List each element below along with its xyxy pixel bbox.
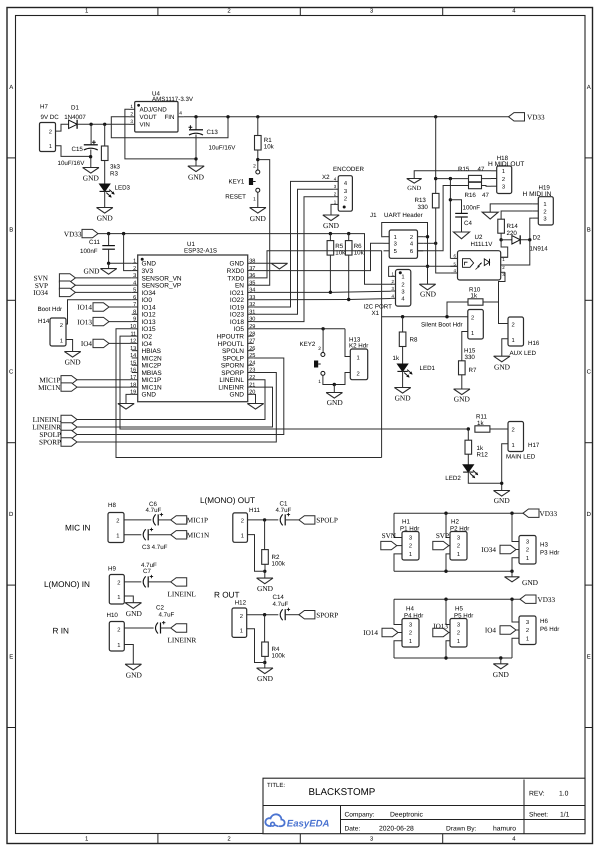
- svg-text:H7: H7: [40, 103, 48, 110]
- ground below J1: [419, 284, 435, 290]
- wire H10 pin2 to C2: [124, 627, 153, 629]
- svg-text:26: 26: [249, 346, 255, 352]
- svg-text:R12: R12: [477, 451, 489, 458]
- capacitor C7: [143, 576, 146, 587]
- pushbutton KEY1 RESET: [256, 170, 260, 174]
- wire H18 pin1 to GND: [414, 171, 491, 179]
- ground below C15: [83, 168, 99, 174]
- svg-text:3: 3: [526, 619, 529, 626]
- wire H6 pin3 to rail: [512, 599, 519, 622]
- svg-text:KEY2: KEY2: [300, 341, 316, 348]
- svg-text:Company:: Company:: [345, 812, 375, 819]
- svg-text:EasyEDA: EasyEDA: [287, 819, 330, 830]
- diode D1: [69, 120, 78, 128]
- svg-text:1: 1: [241, 534, 244, 540]
- wire C15 to GND: [90, 150, 92, 168]
- svg-text:H8: H8: [108, 502, 116, 509]
- svg-text:2: 2: [117, 626, 120, 633]
- svg-text:IO34: IO34: [33, 289, 48, 297]
- svg-text:H4: H4: [406, 605, 414, 612]
- net flag IO4 left: [93, 339, 109, 347]
- svg-text:100k: 100k: [272, 561, 286, 568]
- svg-text:GND: GND: [142, 392, 157, 399]
- svg-text:2: 2: [318, 346, 321, 352]
- capacitor C14: [280, 609, 283, 620]
- svg-text:1: 1: [526, 637, 529, 643]
- svg-text:100nF: 100nF: [463, 204, 481, 211]
- resistor R13: [432, 193, 439, 208]
- wire encoder pin2 to IO18: [254, 197, 334, 322]
- svg-text:H10: H10: [107, 612, 119, 619]
- node input junction: [89, 123, 92, 126]
- LED LED3: [104, 161, 106, 185]
- svg-text:GND: GND: [126, 609, 143, 618]
- svg-text:13: 13: [130, 346, 136, 352]
- svg-text:H16: H16: [528, 340, 540, 347]
- resistor R10: [468, 299, 483, 305]
- ground below R7: [454, 389, 470, 395]
- svg-text:D: D: [587, 511, 592, 518]
- wire U1 pin20 GND: [254, 394, 256, 403]
- wire J1 pin6 to R16: [418, 186, 469, 251]
- EasyEDA logo: [265, 814, 284, 826]
- svg-text:GND: GND: [323, 221, 340, 230]
- svg-text:14: 14: [130, 353, 136, 359]
- svg-text:100nF: 100nF: [80, 248, 98, 255]
- svg-text:3: 3: [457, 622, 460, 629]
- wire U1 pin19 GND: [126, 394, 132, 403]
- svg-text:GND: GND: [83, 174, 100, 183]
- svg-text:P3 Hdr: P3 Hdr: [540, 549, 559, 556]
- wire H9 pin2 to C7: [124, 581, 141, 583]
- svg-text:1: 1: [543, 202, 546, 208]
- svg-text:GND: GND: [142, 261, 157, 268]
- svg-text:VD33: VD33: [64, 230, 82, 238]
- svg-text:IO2: IO2: [142, 334, 153, 341]
- wire H11 pin1 to GND node: [248, 535, 265, 572]
- resistor R11: [475, 426, 490, 432]
- svg-text:BLACKSTOMP: BLACKSTOMP: [309, 787, 376, 798]
- capacitor C3: [143, 529, 146, 540]
- svg-text:8: 8: [133, 309, 136, 315]
- connector J1 UART header: [389, 230, 417, 258]
- svg-text:GND: GND: [126, 671, 143, 680]
- svg-text:2: 2: [471, 314, 474, 321]
- svg-text:H12: H12: [235, 599, 247, 606]
- wire J1 pin1 loop: [382, 223, 428, 237]
- wire H19 pin1 to GND: [490, 204, 532, 212]
- svg-text:C: C: [9, 369, 14, 376]
- svg-text:3: 3: [502, 184, 505, 191]
- svg-text:H1: H1: [402, 518, 410, 525]
- capacitor C13: [195, 117, 197, 130]
- svg-text:RXD0: RXD0: [227, 268, 245, 275]
- ground below U1 left: [118, 404, 134, 410]
- net flag IO14 group2: [382, 628, 398, 636]
- wire H7 pin1 to GND node: [56, 146, 91, 157]
- connector H2 P2 Hdr: [450, 532, 467, 561]
- svg-text:GND: GND: [65, 358, 82, 367]
- svg-text:IO0: IO0: [142, 297, 153, 304]
- svg-text:2: 2: [502, 176, 505, 183]
- wire H4 pin3 to rail: [394, 599, 402, 624]
- svg-text:SVP: SVP: [436, 532, 449, 540]
- svg-text:MIC1N: MIC1N: [142, 384, 163, 391]
- ground below H16: [494, 356, 510, 362]
- svg-text:MIC1N: MIC1N: [38, 384, 61, 392]
- svg-text:MBIAS: MBIAS: [142, 370, 163, 377]
- connector H18 MIDI OUT: [497, 166, 512, 194]
- svg-text:P5 Hdr: P5 Hdr: [454, 612, 473, 619]
- svg-text:2: 2: [130, 112, 133, 118]
- svg-text:2: 2: [457, 543, 460, 550]
- resistor R3: [104, 124, 106, 146]
- svg-text:7: 7: [133, 302, 136, 308]
- ground below H17: [494, 491, 510, 497]
- svg-text:IO4: IO4: [485, 627, 497, 635]
- svg-text:H17: H17: [528, 442, 540, 449]
- svg-text:UART Header: UART Header: [384, 212, 423, 219]
- svg-text:1: 1: [457, 639, 460, 645]
- svg-text:4.7uF: 4.7uF: [273, 601, 289, 608]
- svg-text:6: 6: [410, 248, 413, 255]
- svg-text:2: 2: [60, 323, 63, 329]
- wire EN net: [254, 160, 270, 286]
- wire H14 pin1 to GND: [66, 340, 73, 352]
- wire KEY1 to GND: [257, 192, 259, 207]
- wire group1 top rail: [394, 512, 523, 514]
- wire group1 bottom rail: [394, 570, 512, 572]
- net flag SPORP out: [299, 611, 315, 619]
- svg-text:1: 1: [60, 339, 63, 345]
- svg-text:1: 1: [409, 639, 412, 645]
- wire H16 pin1 to GND: [502, 339, 508, 357]
- net flag LINEINR: [171, 624, 187, 632]
- wire group2 gnd stem: [500, 658, 502, 664]
- wire H17 pin1 to GND: [502, 444, 508, 491]
- wire group1 gnd stem: [511, 571, 513, 577]
- ground below encoder: [323, 215, 339, 221]
- svg-text:REV:: REV:: [529, 791, 545, 798]
- LED LED1: [402, 347, 404, 365]
- svg-text:GND: GND: [83, 267, 100, 276]
- wire R16 to H18 pin3: [482, 185, 492, 188]
- svg-text:H MIDI IN: H MIDI IN: [523, 191, 552, 198]
- svg-text:3: 3: [133, 273, 136, 279]
- svg-text:SPORP: SPORP: [221, 370, 244, 377]
- svg-text:GND: GND: [407, 185, 421, 192]
- svg-text:IO21: IO21: [230, 290, 244, 297]
- wire group2 bottom rail: [394, 657, 512, 659]
- ground below U1 right: [247, 404, 263, 410]
- capacitor C2: [156, 623, 159, 634]
- wire H2 pin1 to rail: [446, 554, 450, 571]
- ground group2: [493, 664, 508, 669]
- wire R11 to H17 pin2: [490, 428, 508, 430]
- connector H11: [233, 513, 248, 542]
- wire encoder pin4 to IO19: [254, 181, 334, 307]
- svg-text:B: B: [9, 226, 13, 233]
- net flag IO13 group2: [433, 628, 449, 636]
- svg-text:SPOLP: SPOLP: [316, 517, 338, 525]
- svg-text:1: 1: [117, 595, 120, 601]
- svg-text:P2 Hdr: P2 Hdr: [450, 525, 469, 532]
- svg-text:1: 1: [133, 259, 136, 265]
- svg-text:2: 2: [401, 282, 404, 289]
- svg-text:H11: H11: [249, 507, 260, 514]
- svg-text:16: 16: [130, 368, 136, 374]
- svg-text:H MIDI OUT: H MIDI OUT: [488, 161, 524, 168]
- net flag IO14 left: [93, 303, 109, 311]
- svg-text:C3 4.7uF: C3 4.7uF: [142, 544, 168, 551]
- svg-text:GND: GND: [395, 394, 412, 403]
- svg-text:AMS1117-3.3V: AMS1117-3.3V: [152, 96, 194, 103]
- svg-text:GND: GND: [493, 670, 510, 679]
- wire J1 pin4 to R13 net: [423, 242, 436, 244]
- svg-text:J1: J1: [370, 212, 377, 219]
- power flag VD33 top: [509, 113, 525, 121]
- svg-text:TITLE:: TITLE:: [267, 782, 285, 789]
- svg-text:1.0: 1.0: [559, 791, 569, 798]
- net flag LINEINL: [171, 578, 187, 586]
- svg-text:E: E: [587, 654, 591, 661]
- svg-text:hamuro: hamuro: [493, 826, 516, 833]
- svg-text:IO34: IO34: [142, 290, 156, 297]
- wire R1 to KEY1: [257, 150, 259, 170]
- svg-text:C4: C4: [464, 220, 472, 227]
- svg-text:1: 1: [49, 144, 52, 150]
- svg-text:GND: GND: [230, 392, 245, 399]
- connector H1 P1 Hdr: [402, 532, 419, 561]
- svg-text:IO5: IO5: [234, 326, 245, 333]
- node rail junctions: [194, 115, 197, 118]
- svg-text:3: 3: [526, 539, 529, 546]
- svg-text:100k: 100k: [272, 652, 286, 659]
- svg-text:2: 2: [526, 547, 529, 554]
- net flag SVN group1: [381, 541, 397, 549]
- net flag LINEINR left: [61, 423, 77, 431]
- svg-text:Sheet:: Sheet:: [529, 812, 548, 819]
- connector X1 I2C port: [396, 270, 411, 307]
- connector H7: [40, 123, 56, 152]
- ground triangle below C4: [454, 232, 470, 239]
- svg-text:35: 35: [249, 280, 255, 286]
- svg-text:1: 1: [526, 556, 529, 562]
- svg-text:GND: GND: [257, 584, 274, 593]
- svg-text:28: 28: [249, 331, 255, 337]
- svg-text:R16: R16: [465, 192, 477, 199]
- connector H16 AUX LED: [508, 317, 524, 346]
- svg-text:IO13: IO13: [142, 319, 156, 326]
- svg-text:2: 2: [409, 630, 412, 637]
- connector H10: [109, 622, 124, 652]
- wire IO2 main-led net: [120, 336, 468, 429]
- wire H6 pin1 to rail: [512, 638, 519, 658]
- svg-text:SPOLP: SPOLP: [222, 355, 244, 362]
- net flag IO34 group1: [500, 545, 516, 553]
- svg-text:K2 Hdr: K2 Hdr: [349, 343, 368, 350]
- svg-text:1k: 1k: [477, 420, 484, 427]
- svg-text:D: D: [9, 511, 14, 518]
- svg-text:C: C: [587, 369, 592, 376]
- wire IO5 to KEY2: [254, 328, 345, 330]
- net flag SVP: [59, 281, 75, 289]
- wire TXD0: [254, 251, 382, 278]
- title block: [263, 778, 585, 834]
- svg-text:Deeptronic: Deeptronic: [390, 812, 423, 819]
- ground below KEY1: [250, 208, 266, 214]
- wire H13 pin1 to IO5: [345, 329, 350, 357]
- connector H3 P3 Hdr: [519, 536, 536, 565]
- net flag MIC1N left: [61, 383, 77, 391]
- net flag SPORP left: [61, 438, 77, 446]
- svg-text:5: 5: [133, 288, 136, 294]
- svg-text:MIC2P: MIC2P: [142, 363, 162, 370]
- svg-text:1: 1: [130, 104, 133, 110]
- wire KEY2 GND stem: [333, 385, 335, 393]
- wire R14 to U2 pin1: [501, 240, 508, 257]
- net flag MIC1N: [171, 531, 187, 539]
- svg-text:GND: GND: [188, 173, 205, 182]
- resistor R1: [257, 117, 259, 136]
- resistor R4: [264, 615, 266, 642]
- wire encoder pin3 to IO23: [254, 189, 334, 314]
- wire C13 to GND: [195, 135, 197, 167]
- wire R6 to IO22: [348, 255, 350, 299]
- svg-text:2: 2: [116, 518, 119, 525]
- svg-text:C2: C2: [156, 605, 164, 612]
- connector H17 MAIN LED: [508, 422, 524, 452]
- svg-text:C11: C11: [89, 239, 100, 246]
- connector Silent Boot Hdr: [468, 310, 484, 340]
- svg-text:9V DC: 9V DC: [41, 114, 60, 121]
- svg-text:SPORN: SPORN: [221, 363, 244, 370]
- svg-text:H6: H6: [540, 618, 548, 625]
- resistor R5: [329, 234, 331, 241]
- svg-text:330: 330: [418, 204, 429, 211]
- svg-text:EN: EN: [235, 283, 244, 290]
- wire R14 to D2: [500, 233, 502, 240]
- wire LINEINL net: [77, 380, 265, 420]
- svg-text:IO14: IO14: [363, 629, 378, 637]
- svg-text:IO4: IO4: [81, 340, 93, 348]
- svg-text:1: 1: [116, 534, 119, 540]
- wire C6 to MIC1P: [158, 519, 171, 521]
- capacitor C11 100nF: [108, 234, 110, 246]
- svg-text:1: 1: [357, 355, 360, 361]
- svg-text:2: 2: [526, 627, 529, 634]
- svg-text:10k: 10k: [264, 144, 275, 151]
- wire H14 pin2 to IO0: [66, 300, 132, 324]
- svg-text:FIN: FIN: [165, 114, 175, 121]
- svg-text:SENSOR_VN: SENSOR_VN: [142, 275, 182, 282]
- node 3V3 rail dots: [107, 232, 110, 235]
- svg-text:HPOUTL: HPOUTL: [218, 341, 245, 348]
- svg-text:ADJ/GND: ADJ/GND: [140, 107, 168, 114]
- svg-text:GND: GND: [97, 214, 114, 223]
- svg-text:1: 1: [401, 275, 404, 281]
- wire H3 pin3 to rail: [512, 513, 519, 541]
- capacitor C4 100nF: [455, 212, 468, 214]
- svg-text:L(MONO) OUT: L(MONO) OUT: [200, 496, 255, 505]
- wire H1 pin1 to rail: [394, 554, 402, 571]
- svg-text:GND: GND: [327, 398, 344, 407]
- ground below C11: [108, 263, 110, 268]
- net flag SPOLP left: [61, 430, 77, 438]
- svg-text:C15: C15: [72, 146, 84, 153]
- ground triangle at H19: [482, 212, 498, 219]
- svg-text:MAIN LED: MAIN LED: [506, 453, 536, 460]
- diode D2: [501, 239, 512, 241]
- svg-text:3: 3: [401, 288, 404, 295]
- svg-text:3V3: 3V3: [142, 268, 154, 275]
- capacitor C15: [90, 124, 92, 145]
- wire H8 pin2 to C6: [124, 519, 151, 521]
- svg-text:KEY1: KEY1: [229, 178, 245, 185]
- svg-text:IO22: IO22: [230, 297, 244, 304]
- svg-text:R15: R15: [458, 166, 470, 173]
- connector H13 K2 Hdr: [350, 349, 367, 380]
- svg-text:3: 3: [344, 188, 347, 195]
- svg-text:Boot Hdr: Boot Hdr: [38, 306, 62, 313]
- wire UART pin5 silent net: [381, 251, 383, 458]
- wire R10 left: [447, 302, 468, 317]
- svg-text:2: 2: [409, 543, 412, 550]
- svg-text:4: 4: [179, 111, 182, 117]
- net flag MIC1P: [171, 516, 187, 524]
- wire group2 top rail: [394, 598, 520, 600]
- wire R13 to U2 pin4: [436, 208, 451, 273]
- svg-text:3: 3: [394, 241, 397, 248]
- svg-text:IO12: IO12: [142, 312, 156, 319]
- wire GND net to U2 pin5: [389, 265, 458, 267]
- net flag IO34 left: [59, 288, 75, 296]
- power flag VD33 group2: [520, 595, 536, 603]
- svg-text:IO14: IO14: [77, 304, 92, 312]
- svg-text:10uF/16V: 10uF/16V: [209, 145, 237, 152]
- svg-text:2: 2: [253, 164, 256, 170]
- ground below H9: [125, 603, 141, 609]
- net flag MIC1P left: [61, 376, 77, 384]
- svg-text:IO14: IO14: [142, 304, 156, 311]
- svg-text:HBIAS: HBIAS: [142, 348, 162, 355]
- wire IO21 SDA: [254, 291, 391, 292]
- connector H5 P5 Hdr: [450, 619, 467, 648]
- svg-text:P6 Hdr: P6 Hdr: [540, 626, 559, 633]
- wire H10 pin1 to GND: [124, 645, 133, 665]
- wire H12 pin2 to C14: [247, 614, 279, 616]
- wire C7 to LINEINL: [148, 581, 171, 583]
- wire H8 pin1 to C3: [124, 534, 141, 536]
- resistor R2: [264, 520, 266, 550]
- svg-text:4.7uF: 4.7uF: [146, 507, 162, 514]
- svg-text:VD33: VD33: [527, 114, 545, 122]
- svg-text:H3: H3: [540, 541, 548, 548]
- wire H5 pin1 to rail: [446, 641, 450, 658]
- wire LED1 to GND: [402, 371, 404, 388]
- svg-text:B: B: [587, 226, 591, 233]
- wire H13 pin2 to GND: [334, 373, 350, 385]
- svg-text:1N914: 1N914: [530, 245, 549, 252]
- wire U2 pin3 to H16: [499, 272, 509, 323]
- wire C11 to pin1 GND: [109, 249, 132, 263]
- wire C3 to MIC1N: [148, 534, 171, 536]
- svg-text:D1: D1: [71, 105, 79, 112]
- power flag VD33 group1: [523, 509, 539, 517]
- wire U4 VOUT loop: [111, 117, 228, 138]
- svg-text:3: 3: [130, 119, 133, 125]
- svg-text:LED2: LED2: [445, 475, 461, 482]
